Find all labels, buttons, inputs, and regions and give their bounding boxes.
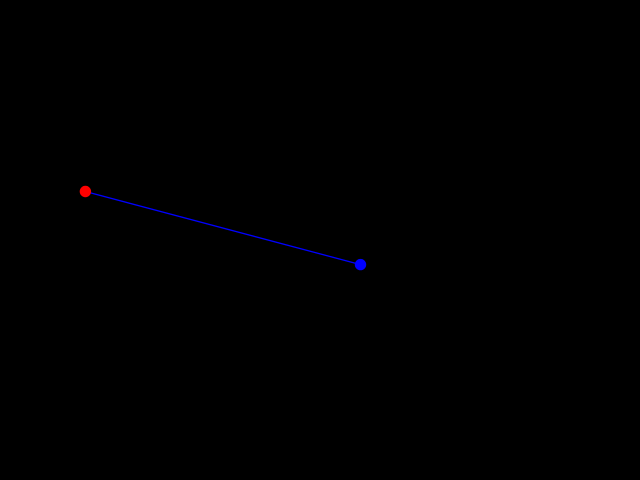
wire: blue edge from node A to node B [85, 192, 360, 265]
node B: blue point [355, 259, 366, 270]
node A: red point [80, 186, 91, 197]
